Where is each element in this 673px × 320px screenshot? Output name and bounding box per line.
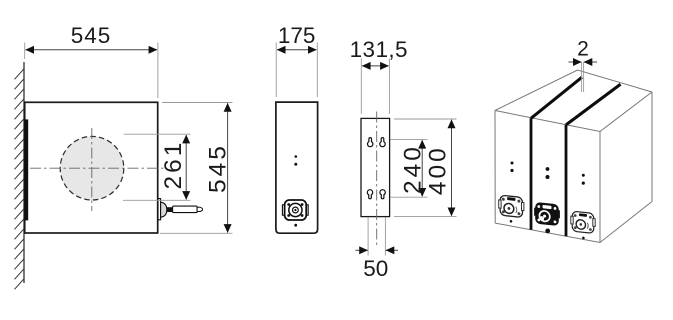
side view dots	[295, 155, 298, 158]
dim 131,5: extension lines	[360, 59, 362, 115]
dim 545 top: dimension line	[26, 49, 157, 51]
side view outline	[276, 102, 318, 233]
svg-text:545: 545	[205, 143, 232, 193]
dim 50: extension lines	[367, 218, 369, 256]
box outline edges	[495, 70, 652, 243]
small dot below right connector	[582, 237, 585, 240]
keyhole bottom-right	[380, 190, 385, 199]
dim 400: dimension line	[451, 120, 453, 216]
right strip dots	[582, 174, 585, 177]
middle connector (3D, dark)	[534, 202, 560, 226]
panel front view outline	[25, 102, 158, 233]
rail centerline	[376, 112, 378, 247]
dim 2: arrows	[569, 61, 582, 63]
middle strip dots	[546, 167, 550, 171]
keyhole top-right	[380, 138, 385, 147]
svg-text:2: 2	[577, 38, 589, 61]
svg-text:240: 240	[399, 144, 426, 194]
dim 400: extension lines	[394, 118, 457, 120]
dim 50: dimension line with inward arrows	[356, 249, 368, 251]
svg-text:400: 400	[425, 145, 452, 195]
gap line A (front face, thick vertical)	[530, 118, 533, 230]
svg-text:261: 261	[160, 140, 187, 190]
left connector (3D)	[499, 195, 524, 218]
svg-text:50: 50	[363, 256, 388, 281]
svg-text:175: 175	[278, 23, 316, 48]
keyhole bottom-left	[367, 190, 372, 199]
mounting bar (thick) on wall side	[24, 119, 28, 220]
svg-text:545: 545	[71, 23, 112, 48]
gap line A (top face, thick)	[531, 77, 582, 118]
keyhole top-left	[368, 138, 373, 147]
svg-text:131,5: 131,5	[350, 37, 408, 62]
small dot below middle connector	[545, 229, 550, 234]
dim 240: extension lines	[390, 138, 428, 140]
dim 545 right: dimension line	[227, 103, 229, 232]
dim 545 top: extension lines	[24, 43, 26, 60]
dim 240: dimension line	[421, 140, 423, 196]
gas connector side (left view)	[158, 199, 203, 220]
gap line B (top face, thick)	[566, 84, 621, 125]
dim 2: extension lines	[581, 62, 583, 92]
burner circle (hidden, dashed)	[60, 136, 124, 200]
gap line B (front face, thick vertical)	[565, 125, 568, 236]
dim 545 right: extension lines	[162, 102, 233, 104]
right connector (3D)	[571, 211, 595, 234]
dim 175: dimension line	[277, 49, 316, 51]
left strip dots	[511, 162, 514, 165]
dim 175: extension lines	[275, 43, 277, 98]
wall hatching	[15, 62, 25, 289]
centerline horizontal	[30, 167, 164, 169]
centerline vertical	[91, 128, 93, 211]
rail outline	[361, 118, 390, 216]
dim 261: dimension line	[185, 135, 187, 200]
dim 261: extension lines	[124, 133, 191, 135]
small dot below left connector	[510, 220, 513, 223]
dim 131,5: dimension line	[362, 65, 388, 67]
side view connector socket	[282, 200, 308, 220]
side view small dot below connector	[294, 224, 297, 227]
